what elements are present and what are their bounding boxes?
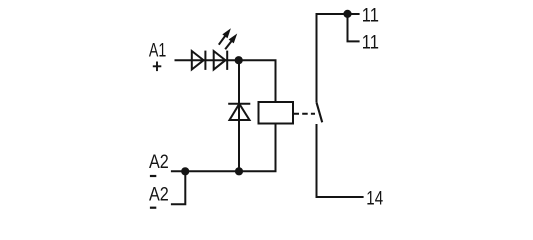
minus sign for lower A2 terminal [150,207,156,209]
LED emission arrow 1 [219,28,231,44]
svg-text:A2: A2 [149,151,169,173]
wire lower A2 up to junction node [171,171,185,204]
svg-text:11: 11 [362,4,379,26]
plus sign for A1 terminal [153,62,162,72]
diode D1 [192,51,206,70]
svg-text:11: 11 [362,31,379,53]
wire junction to second terminal 11 [348,14,360,41]
relay contact blade (normally open) [317,102,323,122]
wire terminal 11 to contact top [317,14,360,102]
svg-text:A2: A2 [149,184,169,206]
wire A1 to relay coil top [175,60,276,102]
wire A2 bottom rail to relay coil bottom [171,124,276,172]
LED emission arrow 2 [225,34,237,50]
actuator dashed link coil to contact [294,113,316,115]
junction node A2 [181,167,189,175]
wire contact bottom to terminal 14 [317,124,364,197]
freewheeling diode D3 [228,104,250,120]
junction node at LED cathode [235,56,243,64]
minus sign for upper A2 terminal [150,175,156,177]
svg-text:A1: A1 [149,40,166,62]
wire LED cathode down through freewheeling diode to bottom rail [238,60,240,171]
junction node on bottom rail at diode [235,167,243,175]
LED D2 [214,51,228,70]
svg-text:14: 14 [366,187,383,209]
relay coil K1 [259,102,294,124]
junction node 11 [343,10,351,18]
